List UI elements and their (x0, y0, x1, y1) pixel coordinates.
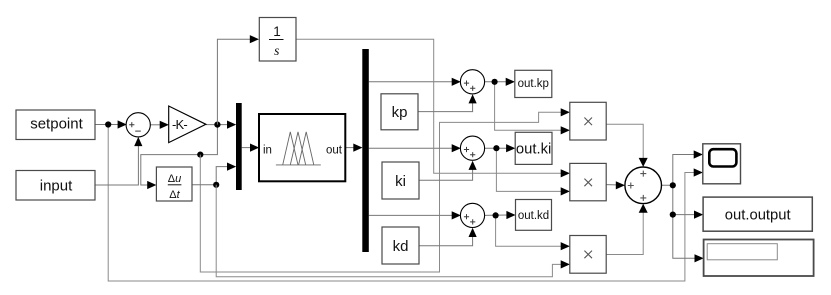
arrowhead into display (695, 254, 704, 262)
arrowhead into 1/s (250, 35, 259, 43)
svg-text:out.kp: out.kp (518, 78, 549, 90)
wire input to sum1 bottom (95, 139, 138, 185)
arrowhead into out.kd (506, 211, 515, 219)
svg-text:1: 1 (273, 24, 281, 39)
svg-text:Δu: Δu (168, 173, 181, 185)
sum5 circle (625, 167, 662, 204)
svg-text:in: in (263, 144, 272, 156)
svg-text:kp: kp (392, 104, 408, 121)
demux bar (362, 49, 369, 252)
wire ki to sum3 bottom (419, 163, 473, 180)
wire sum3 branch to times2 input 2 (496, 148, 562, 191)
node sum5 output junction 2 (670, 212, 676, 218)
wire sum2 branch to times1 input 2 (495, 82, 562, 131)
wire setpoint to sum1 (95, 124, 126, 126)
wire sum3 to out.ki (484, 147, 507, 149)
block scope (703, 144, 741, 184)
wire demux output 3 to sum4 (369, 214, 452, 216)
svg-text:out.kd: out.kd (518, 210, 549, 222)
block setpoint (16, 110, 95, 140)
arrowhead into mux input 1 (227, 121, 236, 129)
node sum5 output junction (670, 182, 676, 188)
node A gain output junction (214, 122, 220, 128)
arrowhead into times1 input 2 (561, 126, 570, 134)
wire sum1 to gain (150, 124, 161, 126)
svg-text:setpoint: setpoint (30, 115, 83, 132)
wire dot2 down bottom rail to times3 input 2 (216, 185, 562, 277)
block times3 product (570, 236, 606, 274)
wire times3 output to sum5 bottom (606, 212, 643, 255)
arrowhead into out.kp (506, 78, 515, 86)
arrowhead into sum1 (118, 120, 127, 128)
arrowhead into fuzzy in (250, 144, 259, 152)
wire setpoint branch down to bottom rail to scope input 2 (108, 125, 701, 282)
node setpoint junction (105, 121, 111, 127)
arrowheads (118, 35, 704, 268)
wire Delta u/Delta t output to mux input 2 (192, 167, 228, 185)
arrowhead into demux (353, 144, 362, 152)
wire dot1 down bottom rail to times1 input 1 (200, 112, 562, 272)
wire node A up to integrator 1/s (217, 39, 251, 124)
svg-text:s: s (274, 43, 279, 58)
wire fuzzy controller to demux (345, 147, 354, 149)
arrowhead into times3 input 1 (561, 242, 570, 250)
block out.output (703, 197, 812, 231)
wire sum4 to out.kd (484, 214, 508, 216)
arrowhead into scope input 2 (694, 168, 703, 176)
svg-text:-K-: -K- (172, 117, 187, 132)
gain -K- triangle (169, 106, 206, 143)
wire mux to fuzzy controller (242, 147, 251, 149)
wire gain to mux input 1 (206, 124, 228, 126)
wire sum5 output to scope input 1 (662, 155, 695, 186)
block ki (382, 162, 419, 199)
arrowhead into sum3 left (452, 144, 461, 152)
arrowhead into sum3 bottom (469, 161, 477, 170)
block kd (382, 227, 419, 264)
arrowhead into sum5 left (616, 181, 625, 189)
svg-text:out: out (326, 144, 343, 156)
block kp (381, 94, 418, 130)
wire sum4 branch to times3 input 1 (496, 215, 562, 246)
node sum3 output junction (493, 145, 499, 151)
arrowhead into scope input 1 (694, 150, 703, 158)
arrowhead into sum2 left (452, 78, 461, 86)
arrowhead into out.ki (506, 144, 515, 152)
svg-text:Δt: Δt (169, 189, 180, 201)
node dot2 derivative output junction (213, 182, 219, 188)
svg-text:out.ki: out.ki (516, 142, 551, 158)
wire sum5 branch to out.output (673, 185, 694, 214)
arrowhead into sum2 bottom (469, 94, 477, 103)
svg-text:ki: ki (395, 173, 406, 190)
wire sum5 branch to display (673, 215, 695, 259)
wire times1 output to sum5 top (606, 124, 643, 159)
block display (704, 240, 814, 277)
arrowhead into sum4 bottom (469, 228, 477, 237)
block input (16, 171, 95, 201)
node sum2 output junction (492, 79, 498, 85)
wire demux output 1 to sum2 (369, 81, 452, 83)
block out.kp (515, 70, 552, 97)
arrowhead into times1 input 1 (561, 108, 570, 116)
svg-text:out.output: out.output (725, 208, 791, 224)
arrowhead into times3 input 2 (561, 260, 570, 268)
arrowhead into out.output (694, 211, 703, 219)
wire node A to Delta u/Delta t input (141, 125, 218, 185)
block times2 product (570, 163, 606, 200)
block Delta u / Delta t derivative (156, 167, 192, 201)
arrowhead into times2 input 2 (561, 187, 570, 195)
block fuzzy controller (259, 114, 345, 181)
block out.ki (515, 132, 552, 164)
block times1 product (570, 102, 606, 140)
wire sum2 to out.kp (484, 81, 507, 83)
block 1/s integrator (259, 18, 296, 62)
arrowhead into mux input 2 (227, 163, 236, 171)
node dot1 on error line (197, 152, 203, 158)
sum3 circle (460, 136, 484, 160)
arrowhead into sum5 top (639, 158, 648, 167)
svg-text:input: input (40, 178, 73, 195)
node sum4 output junction (493, 212, 499, 218)
arrowhead into sum5 bottom (639, 204, 648, 213)
mux bar (236, 103, 242, 190)
sum4 circle (460, 203, 484, 227)
sum2 circle (460, 70, 484, 94)
arrowhead into sum1 bottom from input (134, 137, 142, 146)
arrowhead into sum4 left (452, 211, 461, 219)
wire kp to sum2 bottom (418, 96, 473, 112)
arrowhead into gain (160, 121, 169, 129)
block out.kd (516, 200, 552, 231)
sum1 circle (126, 113, 150, 137)
fuzzy membership icon (276, 132, 321, 165)
arrowhead into Delta u/Delta t (147, 181, 156, 189)
wire demux output 2 to sum3 (369, 147, 452, 149)
wire kd to sum4 bottom (419, 230, 473, 246)
arrowhead into times2 input 1 (561, 169, 570, 177)
wire times2 output to sum5 left (606, 184, 616, 186)
wire integrator 1/s output to times2 input 1 (296, 39, 562, 173)
svg-text:kd: kd (393, 238, 409, 255)
